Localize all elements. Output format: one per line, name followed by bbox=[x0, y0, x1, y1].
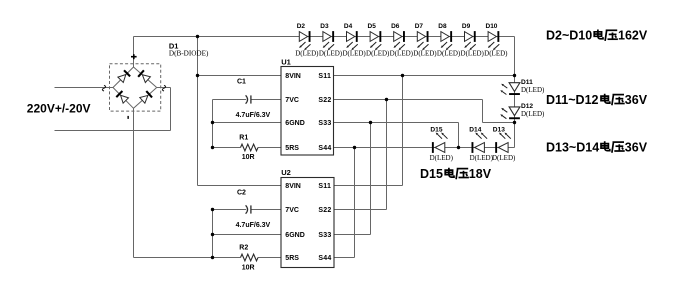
svg-text:U2: U2 bbox=[281, 168, 291, 177]
svg-text:D7: D7 bbox=[415, 23, 424, 30]
svg-text:D3: D3 bbox=[320, 23, 329, 30]
svg-text:S11: S11 bbox=[318, 73, 331, 80]
svg-text:D12: D12 bbox=[521, 103, 533, 110]
svg-text:S11: S11 bbox=[318, 183, 331, 190]
svg-text:S33: S33 bbox=[318, 232, 331, 239]
svg-text:220V+/-20V: 220V+/-20V bbox=[27, 101, 91, 115]
svg-text:S44: S44 bbox=[318, 255, 331, 262]
svg-text:D(LED): D(LED) bbox=[390, 50, 414, 58]
svg-text:D6: D6 bbox=[391, 23, 400, 30]
svg-text:5RS: 5RS bbox=[285, 145, 299, 152]
svg-text:D5: D5 bbox=[368, 23, 377, 30]
svg-text:R1: R1 bbox=[239, 135, 248, 142]
svg-text:8VIN: 8VIN bbox=[285, 73, 301, 80]
svg-text:D4: D4 bbox=[344, 23, 353, 30]
svg-text:4.7uF/6.3V: 4.7uF/6.3V bbox=[236, 112, 271, 119]
svg-text:S33: S33 bbox=[318, 120, 331, 127]
svg-text:S22: S22 bbox=[318, 207, 331, 214]
svg-text:C2: C2 bbox=[237, 190, 246, 197]
svg-text:36V: 36V bbox=[625, 93, 648, 107]
svg-text:5RS: 5RS bbox=[285, 255, 299, 262]
svg-text:10R: 10R bbox=[242, 154, 255, 161]
svg-text:D(LED): D(LED) bbox=[492, 154, 516, 162]
svg-text:D(LED): D(LED) bbox=[470, 154, 494, 162]
svg-text:18V: 18V bbox=[469, 167, 492, 181]
svg-text:D(LED): D(LED) bbox=[484, 50, 508, 58]
svg-text:D(B-DIODE): D(B-DIODE) bbox=[169, 50, 209, 58]
svg-text:D14: D14 bbox=[469, 127, 481, 134]
svg-text:D9: D9 bbox=[462, 23, 471, 30]
svg-text:D10: D10 bbox=[486, 23, 498, 30]
svg-text:S44: S44 bbox=[318, 145, 331, 152]
svg-text:D(LED): D(LED) bbox=[461, 50, 485, 58]
svg-text:D15: D15 bbox=[420, 167, 443, 181]
svg-text:D(LED): D(LED) bbox=[521, 86, 545, 94]
svg-text:D(LED): D(LED) bbox=[521, 110, 545, 118]
svg-text:D13~D14: D13~D14 bbox=[546, 141, 599, 155]
svg-text:D(LED): D(LED) bbox=[430, 154, 454, 162]
svg-text:162V: 162V bbox=[618, 29, 648, 43]
svg-text:D2~D10: D2~D10 bbox=[546, 29, 592, 43]
svg-text:7VC: 7VC bbox=[285, 207, 299, 214]
svg-text:D(LED): D(LED) bbox=[437, 50, 461, 58]
svg-text:D15: D15 bbox=[430, 127, 442, 134]
svg-text:4.7uF/6.3V: 4.7uF/6.3V bbox=[236, 222, 271, 229]
svg-text:D8: D8 bbox=[438, 23, 447, 30]
svg-text:D(LED): D(LED) bbox=[319, 50, 343, 58]
svg-text:D13: D13 bbox=[493, 127, 505, 134]
svg-text:36V: 36V bbox=[625, 141, 648, 155]
svg-text:U1: U1 bbox=[281, 57, 291, 66]
svg-text:10R: 10R bbox=[242, 264, 255, 271]
svg-text:6GND: 6GND bbox=[285, 232, 304, 239]
svg-text:D11: D11 bbox=[521, 79, 533, 86]
svg-text:D(LED): D(LED) bbox=[366, 50, 390, 58]
svg-text:D2: D2 bbox=[297, 23, 306, 30]
svg-text:6GND: 6GND bbox=[285, 120, 304, 127]
svg-text:7VC: 7VC bbox=[285, 97, 299, 104]
svg-text:8VIN: 8VIN bbox=[285, 183, 301, 190]
svg-text:S22: S22 bbox=[318, 97, 331, 104]
svg-text:D(LED): D(LED) bbox=[413, 50, 437, 58]
svg-text:D11~D12: D11~D12 bbox=[546, 93, 599, 107]
svg-text:D(LED): D(LED) bbox=[342, 50, 366, 58]
svg-text:R2: R2 bbox=[239, 245, 248, 252]
svg-text:C1: C1 bbox=[237, 79, 246, 86]
svg-text:D(LED): D(LED) bbox=[295, 50, 319, 58]
